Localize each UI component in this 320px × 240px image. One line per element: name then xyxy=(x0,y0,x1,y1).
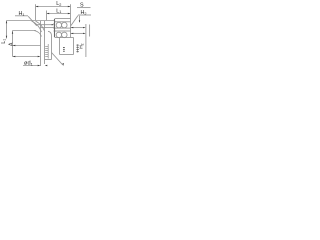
right extension line for L1/L2 xyxy=(70,4,72,18)
od1 leader diagonal xyxy=(52,53,63,66)
od1 underline xyxy=(23,65,40,67)
fillet into leg right edge xyxy=(48,31,52,36)
bottom dim line to leg xyxy=(13,56,40,58)
dim B arrow up xyxy=(12,31,13,34)
thread mark stack in lower rect xyxy=(63,46,65,49)
stud top line xyxy=(71,27,85,29)
bore line lower xyxy=(40,27,55,29)
internal thread dashes in leg xyxy=(45,44,48,59)
H1 leader diagonal xyxy=(28,16,37,26)
corner fillet arc 2 xyxy=(36,21,45,31)
leg inner left xyxy=(44,21,46,64)
lower rect bottom edge xyxy=(60,54,74,56)
H2 label underline xyxy=(78,14,91,16)
step to lower rect xyxy=(71,37,74,39)
stud bottom line xyxy=(71,32,85,34)
right stack spine xyxy=(77,44,79,52)
knurl ticks xyxy=(53,23,56,25)
dim line B vertical xyxy=(12,31,14,57)
L1 left extension line xyxy=(46,11,48,21)
nut cross line lower xyxy=(55,30,71,32)
od1 dim arrow at leg xyxy=(38,65,41,66)
body top edge xyxy=(7,20,55,22)
dim A arrow up xyxy=(6,21,7,24)
H1 label underline xyxy=(15,15,28,17)
body inner line xyxy=(13,30,37,32)
nut knurl left edge xyxy=(54,19,56,37)
far right vertical xyxy=(89,25,91,37)
body left edge / dim A xyxy=(6,21,8,39)
thread mark stack right xyxy=(77,44,79,47)
nut circle bottom-left xyxy=(56,32,62,38)
S leader arrow down xyxy=(79,20,80,22)
stud end vertical xyxy=(85,24,87,57)
rotated label at right vertical dim xyxy=(79,43,85,48)
H2 leader diagonal to nut xyxy=(71,16,78,26)
L2 dimension line xyxy=(36,6,70,8)
nut top edge xyxy=(55,18,71,20)
labels xyxy=(1,1,87,67)
leg right edge xyxy=(51,36,53,60)
stud arrow bottom left xyxy=(71,33,74,34)
leg bottom edge xyxy=(45,59,52,61)
L1 arrow left xyxy=(47,13,50,14)
svg-text:L1: L1 xyxy=(56,8,61,14)
svg-text:H1: H1 xyxy=(19,11,25,17)
svg-text:ød1: ød1 xyxy=(24,61,34,67)
bore line upper xyxy=(36,24,53,26)
corner fillet arc 1 xyxy=(32,21,42,32)
stud arrow top left xyxy=(71,27,74,28)
nut circle bottom-right xyxy=(62,32,68,38)
leader tick arrow bottom right xyxy=(63,63,64,66)
dim A arrow down xyxy=(6,36,7,39)
bottom dim arrow at leg xyxy=(38,56,41,57)
lower rect right edge xyxy=(73,38,75,55)
L2 arrow left xyxy=(36,6,39,7)
stud arrow top right xyxy=(83,27,86,28)
nut circle top-right xyxy=(62,22,68,28)
L2 left extension line xyxy=(35,4,37,20)
od1 opposite arrow xyxy=(45,65,48,66)
nut inner top line xyxy=(55,21,71,23)
lower rect left edge xyxy=(59,38,61,55)
S leader vertical xyxy=(79,16,81,22)
mid extension line xyxy=(13,45,41,47)
svg-text:H2: H2 xyxy=(81,10,87,16)
svg-text:S: S xyxy=(80,3,84,9)
L1 arrow right xyxy=(68,13,71,14)
corner fillet arc 3 xyxy=(34,31,42,37)
svg-text:L2: L2 xyxy=(56,1,61,7)
nut bottom edge xyxy=(55,37,71,39)
bottom line left arrow xyxy=(13,56,16,57)
leg left edge xyxy=(40,21,42,66)
dark details xyxy=(6,6,86,67)
nut right edge xyxy=(70,19,72,38)
stud arrow bottom right xyxy=(83,33,86,34)
L2 arrow right xyxy=(68,6,71,7)
nut cross line upper xyxy=(55,27,71,29)
svg-text:L1: L1 xyxy=(1,39,7,44)
nut circle top-left xyxy=(56,22,62,28)
S label underline xyxy=(77,7,91,9)
bore arrow at nut xyxy=(52,24,55,25)
svg-text:H2: H2 xyxy=(79,43,85,48)
L1 dimension line xyxy=(47,13,70,15)
mid line left arrow xyxy=(13,45,16,46)
